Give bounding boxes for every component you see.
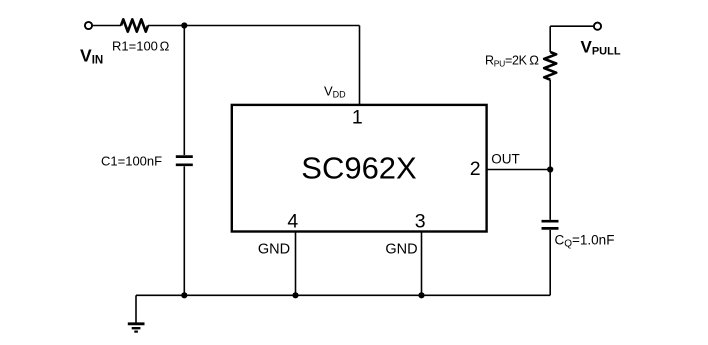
svg-text:SC962X: SC962X	[301, 151, 417, 186]
wire	[549, 80, 551, 170]
wire pin2 OUT	[487, 169, 550, 171]
wire	[183, 166, 185, 295]
wire	[148, 25, 360, 27]
svg-text:OUT: OUT	[491, 152, 520, 167]
op-amp U1 SC962X body	[232, 105, 487, 232]
wire ground stem	[135, 295, 137, 323]
node OUT junction	[547, 166, 553, 172]
terminal VIN	[85, 22, 92, 29]
node junction R1/C1	[181, 22, 187, 28]
svg-text:CQ=1.0nF: CQ=1.0nF	[555, 233, 615, 250]
terminal VPULL	[594, 23, 601, 30]
node junction pin3/rail	[418, 292, 424, 298]
wire	[549, 170, 551, 220]
svg-text:Ω: Ω	[160, 39, 170, 54]
resistor RPU	[544, 52, 556, 80]
wire	[183, 26, 185, 156]
wire pin3 GND	[421, 231, 423, 295]
wire	[549, 230, 551, 295]
svg-text:4: 4	[287, 210, 298, 232]
wire	[549, 26, 551, 52]
wire pin4 GND	[295, 231, 297, 295]
capacitor C1	[176, 155, 193, 158]
svg-text:C1=100nF: C1=100nF	[101, 154, 162, 169]
wire	[550, 25, 594, 27]
wire	[359, 26, 361, 106]
svg-text:RPU=2K: RPU=2K	[485, 53, 528, 68]
svg-text:3: 3	[415, 210, 426, 232]
node junction C1/rail	[181, 292, 187, 298]
svg-text:1: 1	[352, 106, 363, 128]
wire ground rail	[136, 294, 550, 296]
svg-text:2: 2	[470, 158, 481, 180]
node junction pin4/rail	[292, 292, 298, 298]
svg-text:GND: GND	[385, 242, 417, 258]
svg-text:GND: GND	[258, 242, 290, 258]
svg-text:Ω: Ω	[529, 52, 539, 67]
capacitor CQ	[542, 220, 559, 223]
ground	[128, 324, 145, 332]
wire	[92, 25, 121, 27]
resistor R1	[121, 19, 148, 31]
svg-text:R1=100: R1=100	[112, 39, 158, 54]
